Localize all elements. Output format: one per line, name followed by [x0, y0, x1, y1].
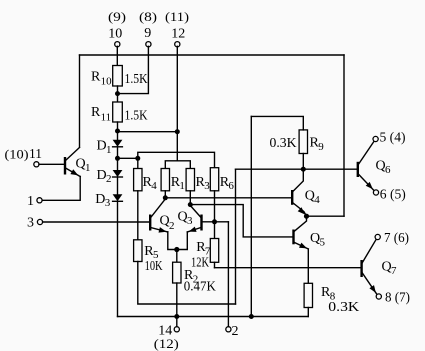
pin 14 terminal: [174, 327, 179, 332]
svg-text:1.5K: 1.5K: [125, 72, 148, 87]
pin 1 terminal: [37, 198, 42, 203]
svg-text:1.5K: 1.5K: [125, 108, 148, 123]
svg-text:3: 3: [105, 197, 111, 209]
wire Q2/Q3 emitter U: [168, 232, 188, 250]
resistor R8: [304, 283, 312, 307]
wire from x=344 to Q4e/Q5c node: [307, 215, 345, 217]
wire R1/R3 top bracket: [165, 161, 190, 169]
svg-text:(11): (11): [165, 9, 189, 24]
svg-text:4: 4: [151, 180, 157, 192]
wire R9 bracket riser to ground: [250, 116, 252, 316]
wire Q3 base line to pin 2 riser: [202, 221, 228, 223]
wire pin 3 to Q2 base: [43, 221, 149, 223]
wire R5 bottom rail to feedback riser: [138, 262, 236, 305]
svg-text:(9): (9): [108, 9, 126, 24]
wire R9 top bracket: [251, 116, 303, 129]
svg-text:0.47K: 0.47K: [184, 280, 216, 295]
resistor R11: [113, 102, 123, 122]
wire D2 to D3: [117, 177, 119, 194]
svg-text:7: 7: [391, 265, 397, 277]
arrow Q1 emitter: [70, 169, 78, 175]
resistor R6: [210, 168, 218, 191]
resistor R7: [210, 239, 218, 263]
pin 8 terminal: [376, 294, 381, 299]
wire ground line pin14: [118, 316, 309, 318]
node common emitters: [174, 247, 179, 252]
pin 2 terminal: [226, 327, 231, 332]
node R9 bracket riser on ground line: [249, 314, 254, 319]
wire R6 bottom lead: [214, 191, 216, 222]
node R2/pin14: [174, 314, 179, 319]
transistor Q7: [360, 260, 362, 277]
transistor Q3: [200, 215, 202, 231]
svg-text:10: 10: [101, 76, 113, 88]
wire R4 top lead: [137, 158, 139, 168]
svg-text:(10): (10): [5, 146, 29, 161]
wire pin 2 riser: [227, 222, 229, 327]
transistor Q4: [293, 169, 304, 191]
wire pin 12 stem down to R1/R3 bracket: [176, 46, 178, 161]
svg-text:4: 4: [314, 194, 320, 206]
svg-text:1: 1: [27, 194, 34, 209]
svg-text:2: 2: [106, 173, 112, 185]
svg-text:0.3K: 0.3K: [328, 300, 359, 315]
transistor Q5: [294, 216, 307, 231]
svg-text:6: 6: [228, 180, 234, 192]
wire D1 to D2: [117, 147, 119, 170]
wire R10 to R11: [117, 86, 119, 102]
node R4 top tap: [135, 156, 140, 161]
arrow Q7 emitter: [369, 285, 376, 293]
svg-text:11: 11: [29, 147, 42, 162]
wire R7 top lead: [214, 222, 216, 239]
svg-text:1: 1: [106, 144, 112, 156]
svg-text:9: 9: [318, 141, 324, 153]
wire R4 bottom to R5 top: [137, 191, 139, 240]
wire right frame vertical x=344: [343, 55, 345, 216]
svg-text:8 (7): 8 (7): [385, 291, 410, 306]
arrow Q4 emitter: [298, 207, 305, 214]
node R6 bottom / R7 top / Q3 base: [212, 219, 217, 224]
svg-text:5 (4): 5 (4): [380, 130, 406, 145]
pin 9 terminal: [146, 42, 151, 47]
node R10/R11 junction: [115, 91, 120, 96]
wire Q3 collector to Q5 base: [190, 205, 292, 237]
svg-text:(12): (12): [154, 336, 179, 351]
svg-text:6 (5): 6 (5): [380, 188, 406, 203]
svg-text:R: R: [91, 69, 101, 84]
diode D1: [113, 140, 123, 147]
arrow Q3 emitter: [189, 227, 197, 232]
wire Q1 emitter to pin 1: [42, 177, 80, 201]
svg-text:10K: 10K: [145, 259, 163, 274]
svg-text:12K: 12K: [191, 255, 209, 270]
svg-text:(8): (8): [139, 9, 157, 24]
node R11 bottom: [115, 129, 120, 134]
wire D1/D2 node to R4 top: [118, 157, 138, 159]
resistor R4: [134, 169, 142, 191]
wire Q5 emitter to R8: [307, 249, 309, 283]
wire Q7 base line: [215, 267, 361, 269]
wire R8 bottom to ground line: [307, 308, 309, 317]
resistor R2: [173, 262, 181, 283]
wire R11 bottom node to pin 12 stem: [118, 131, 178, 133]
wire R7 bottom to Q7 base line: [214, 262, 216, 267]
arrow Q5 emitter: [299, 243, 307, 249]
resistor R1: [161, 169, 169, 191]
pin 10 terminal: [115, 42, 120, 47]
wire pin 9 stem: [117, 46, 148, 93]
diode D2: [113, 170, 123, 177]
wire left frame vertical to Q1 collector: [79, 55, 81, 147]
wire R2 bottom to ground line: [176, 283, 178, 327]
wire pin 10 stem to R10: [116, 46, 118, 65]
wire R4/R6 top rail: [138, 152, 215, 167]
svg-text:3: 3: [187, 215, 193, 227]
svg-text:2: 2: [169, 220, 175, 232]
resistor R10: [113, 66, 123, 87]
wire node line R9 bottom / Q6 base: [236, 168, 358, 170]
wire R11 bottom to D1: [117, 122, 119, 140]
svg-text:1: 1: [179, 180, 185, 192]
pin 11 terminal: [34, 162, 39, 167]
wire pin 11 to Q1 base: [39, 163, 64, 165]
pin 6 terminal: [373, 190, 378, 195]
resistor R5: [134, 240, 142, 262]
svg-text:12: 12: [171, 27, 185, 42]
svg-text:11: 11: [101, 111, 112, 123]
resistor R9: [299, 130, 307, 154]
wire D3 down left side to ground line: [117, 201, 119, 316]
svg-text:3: 3: [204, 180, 210, 192]
transistor Q1: [64, 157, 66, 175]
wire Q4 base line: [165, 197, 291, 199]
resistor R3: [186, 169, 194, 191]
svg-text:3: 3: [27, 215, 34, 230]
svg-text:1: 1: [85, 162, 91, 174]
node Q4 emitter / Q5 collector: [304, 214, 309, 219]
diode D3: [113, 194, 123, 201]
node R1 bottom / Q2 collector: [163, 195, 168, 200]
transistor Q6: [357, 162, 359, 177]
node D1/D2 junction: [115, 156, 120, 161]
wire R9 bottom lead: [302, 154, 304, 170]
wire R3 bottom to Q3 collector node: [189, 191, 191, 205]
svg-text:7 (6): 7 (6): [384, 231, 409, 246]
svg-text:9: 9: [144, 26, 151, 41]
node pin12 stem junction: [175, 129, 180, 134]
svg-text:5: 5: [320, 236, 326, 248]
wire common emitter to R2: [176, 250, 178, 263]
node R3 bottom / Q3 collector: [188, 202, 193, 207]
wire feedback riser x=235.5: [235, 169, 237, 304]
arrow Q2 emitter: [159, 227, 167, 233]
svg-text:R: R: [91, 105, 101, 120]
wire top rail from Q1 collector to output stage: [80, 54, 345, 56]
pin 12 terminal: [175, 42, 180, 47]
svg-text:10: 10: [108, 27, 122, 42]
pin 3 terminal: [37, 219, 42, 224]
svg-text:0.3K: 0.3K: [270, 136, 297, 151]
svg-text:2: 2: [232, 324, 239, 339]
arrow Q6 emitter: [366, 182, 373, 189]
svg-text:6: 6: [385, 164, 391, 176]
wire R1 bottom to Q2 collector node: [164, 191, 166, 198]
transistor Q2: [149, 215, 151, 231]
node R9 bottom / Q4 collector: [301, 167, 306, 172]
pin 5 terminal: [373, 136, 378, 141]
pin 7 terminal: [375, 234, 380, 239]
